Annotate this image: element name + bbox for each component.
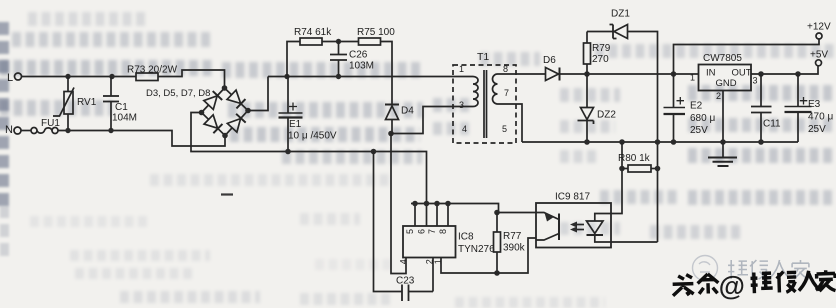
svg-text:DZ1: DZ1 (611, 9, 630, 20)
svg-text:E2: E2 (690, 101, 703, 112)
wire C23 to IC8 pin2 (432, 258, 434, 292)
svg-text:R75 100: R75 100 (357, 27, 395, 38)
svg-text:104M: 104M (112, 113, 137, 124)
watermark black text (672, 268, 835, 303)
diode D6 (543, 55, 560, 81)
wire +12V branch (674, 40, 820, 75)
wire bridge right to main rail (248, 77, 268, 111)
node GND rail junction (720, 139, 726, 145)
node E3 top junction (795, 71, 801, 77)
svg-text:7: 7 (504, 88, 509, 98)
svg-text:GND: GND (716, 78, 737, 89)
svg-text:R73 20/2W: R73 20/2W (127, 65, 178, 76)
svg-text:TYN276: TYN276 (458, 244, 495, 255)
svg-text:CW7805: CW7805 (703, 53, 742, 64)
svg-text:C11: C11 (763, 119, 781, 130)
svg-text:103M: 103M (349, 61, 374, 72)
node L-RV1 junction (65, 74, 70, 79)
node bridge top (222, 85, 228, 91)
svg-text:C23: C23 (396, 276, 415, 287)
node bridge left (199, 110, 205, 116)
svg-text:25V: 25V (690, 125, 708, 136)
svg-text:IC8: IC8 (458, 232, 474, 243)
wire main DC rail to transformer pin1 (268, 76, 473, 78)
resistor R73 (127, 65, 178, 81)
svg-text:270: 270 (592, 54, 609, 65)
IC U8 TYN276 (403, 226, 495, 258)
capacitor C1 (103, 77, 137, 131)
svg-text:IC9 817: IC9 817 (555, 192, 590, 203)
svg-text:10 μ /450V: 10 μ /450V (288, 131, 337, 142)
regulator U CW7805 (699, 53, 752, 91)
svg-text:7: 7 (427, 229, 437, 234)
svg-text:R77: R77 (503, 231, 522, 242)
svg-text:4: 4 (462, 124, 467, 134)
transformer T1 (453, 51, 516, 143)
node R80 right junction (655, 166, 661, 172)
capacitor E2 (664, 74, 716, 142)
T1 secondary winding (493, 74, 498, 104)
svg-text:R80 1k: R80 1k (618, 153, 651, 164)
node bus pin6 (424, 201, 430, 207)
svg-text:R79: R79 (592, 43, 611, 54)
node bridge bottom (222, 133, 228, 139)
svg-text:FU1: FU1 (41, 118, 60, 129)
node C11 bottom junction (758, 139, 764, 145)
svg-text:N: N (5, 124, 13, 136)
terminal N (5, 124, 21, 136)
svg-text:6: 6 (417, 229, 427, 234)
svg-text:C26: C26 (349, 50, 368, 61)
opto light arrows (570, 222, 584, 233)
svg-text:470 μ: 470 μ (808, 112, 833, 123)
IC8 pin7 riser (436, 204, 438, 227)
svg-text:5: 5 (502, 124, 507, 134)
T1 primary winding (473, 77, 478, 107)
node E2 top junction (671, 71, 677, 77)
opto LED (587, 214, 658, 243)
svg-text:D3, D5, D7, D8: D3, D5, D7, D8 (146, 88, 210, 99)
fuse FU1 (21, 118, 60, 134)
IC8 pin6 riser (426, 204, 428, 227)
svg-text:2: 2 (716, 91, 721, 101)
wire IC8 pin1 to opto emitter (441, 238, 536, 273)
diode D4 (385, 105, 414, 134)
node N-C1 junction (108, 128, 113, 133)
svg-text:T1: T1 (477, 51, 489, 63)
svg-text:E3: E3 (808, 99, 821, 110)
svg-text:5: 5 (405, 229, 415, 234)
node R77 top junction (494, 210, 500, 216)
node R77 bottom junction (494, 270, 500, 276)
node L-C1 junction (109, 74, 114, 79)
diode bridge arm top-left (197, 83, 230, 117)
wire D4 node to transformer pin3 (391, 107, 473, 134)
wire +12V raw rail (560, 73, 699, 75)
wire +5V output rail (751, 66, 818, 74)
wire T1 pin8 to D6 (498, 73, 546, 75)
IC8 pin5 riser (414, 204, 416, 227)
node R80 left junction (619, 166, 625, 172)
ground symbol (708, 142, 737, 166)
opto phototransistor (536, 213, 559, 241)
node rail-E1 junction (284, 74, 289, 79)
node bus pin7 (434, 201, 440, 207)
capacitor E1 (279, 77, 337, 152)
node bus pin5 (412, 201, 418, 207)
wire C23 branch (374, 152, 402, 292)
watermark gray text (728, 260, 809, 279)
svg-text:C1: C1 (115, 102, 128, 113)
zener diode DZ2 (578, 74, 617, 142)
node DZ1 rail junction (655, 139, 661, 145)
capacitor E3 (785, 74, 834, 142)
svg-text:680 μ: 680 μ (690, 113, 715, 124)
svg-text:8: 8 (438, 229, 448, 234)
watermark faint logo circle (693, 256, 718, 281)
wire primary ground rail (191, 113, 427, 204)
zener diode DZ1 (587, 9, 630, 39)
svg-text:D6: D6 (543, 55, 556, 66)
wire riser to R74 (287, 42, 300, 77)
node N-RV1 junction (65, 128, 70, 133)
node rail-C26 junction (336, 74, 341, 79)
wire DZ1 anode down to ground rail and opto (628, 32, 658, 243)
node R74-R75-C26 junction (336, 39, 341, 44)
svg-text:RV1: RV1 (77, 97, 97, 108)
wire N rail to bridge bottom (58, 131, 225, 147)
node DZ2 bottom junction (584, 139, 590, 145)
svg-text:25V: 25V (808, 124, 826, 135)
node E2 bottom junction (671, 139, 677, 145)
optocoupler U9 box (536, 192, 611, 248)
node R79-DZ2 junction (584, 71, 590, 77)
wire bus to opto collector (499, 212, 537, 214)
svg-text:OUT: OUT (732, 68, 752, 79)
wire CW7805 GND pin (722, 91, 724, 143)
svg-text:3: 3 (459, 100, 464, 110)
node C11 top junction (758, 71, 764, 77)
svg-text:DZ2: DZ2 (597, 110, 616, 121)
node C23 branch junction (371, 149, 377, 155)
wire T1 pin7 to ground rail (498, 104, 523, 142)
node bus pin8 (445, 201, 451, 207)
terminal +5V (810, 50, 828, 66)
svg-text:D4: D4 (401, 106, 414, 117)
stray mark (221, 193, 233, 195)
wire R75 to D4 cathode (381, 42, 393, 105)
svg-text:+5V: +5V (810, 50, 828, 61)
node bridge right (245, 108, 251, 114)
svg-text:E1: E1 (289, 119, 302, 130)
wire R80 left branch to opto anode (611, 142, 622, 214)
node E1 bottom junction (285, 149, 291, 155)
resistor R80 (618, 153, 658, 172)
terminal +12V (807, 22, 831, 40)
resistor R79 (584, 32, 611, 75)
svg-text:L: L (7, 72, 13, 84)
diode bridge arm bottom-right (220, 106, 253, 140)
capacitor C26 (330, 42, 374, 77)
wire IC8 pins 5-8 bus (411, 204, 499, 213)
wire secondary ground rail (522, 141, 798, 143)
svg-text:4: 4 (399, 259, 409, 264)
svg-text:3: 3 (753, 76, 758, 86)
svg-text:R74 61k: R74 61k (294, 27, 332, 38)
wire D4 node to IC8 pin4 (391, 134, 406, 274)
svg-text:8: 8 (503, 64, 508, 74)
terminal L (7, 72, 22, 84)
wire R73 to bridge top (158, 70, 225, 88)
wire L rail (22, 76, 137, 78)
capacitor C11 (751, 74, 781, 142)
svg-text:+12V: +12V (807, 22, 831, 33)
resistor R77 (494, 213, 526, 274)
diode bridge arm top-right (219, 83, 253, 116)
diode bridge arm bottom-left (197, 107, 230, 140)
svg-text:1: 1 (459, 64, 464, 74)
svg-text:@: @ (718, 271, 745, 302)
T1 core (484, 70, 487, 138)
IC8 pin8 riser (447, 204, 449, 227)
svg-text:390k: 390k (503, 243, 526, 254)
svg-text:1: 1 (690, 73, 695, 83)
resistor R75 (357, 27, 395, 45)
wire R74 to R75 (322, 41, 359, 43)
varistor RV1 (53, 77, 97, 131)
capacitor C23 (396, 276, 433, 302)
node R80 rail junction (619, 139, 625, 145)
node D4 anode junction (388, 131, 394, 137)
resistor R74 (294, 27, 332, 45)
svg-text:IN: IN (706, 68, 716, 79)
